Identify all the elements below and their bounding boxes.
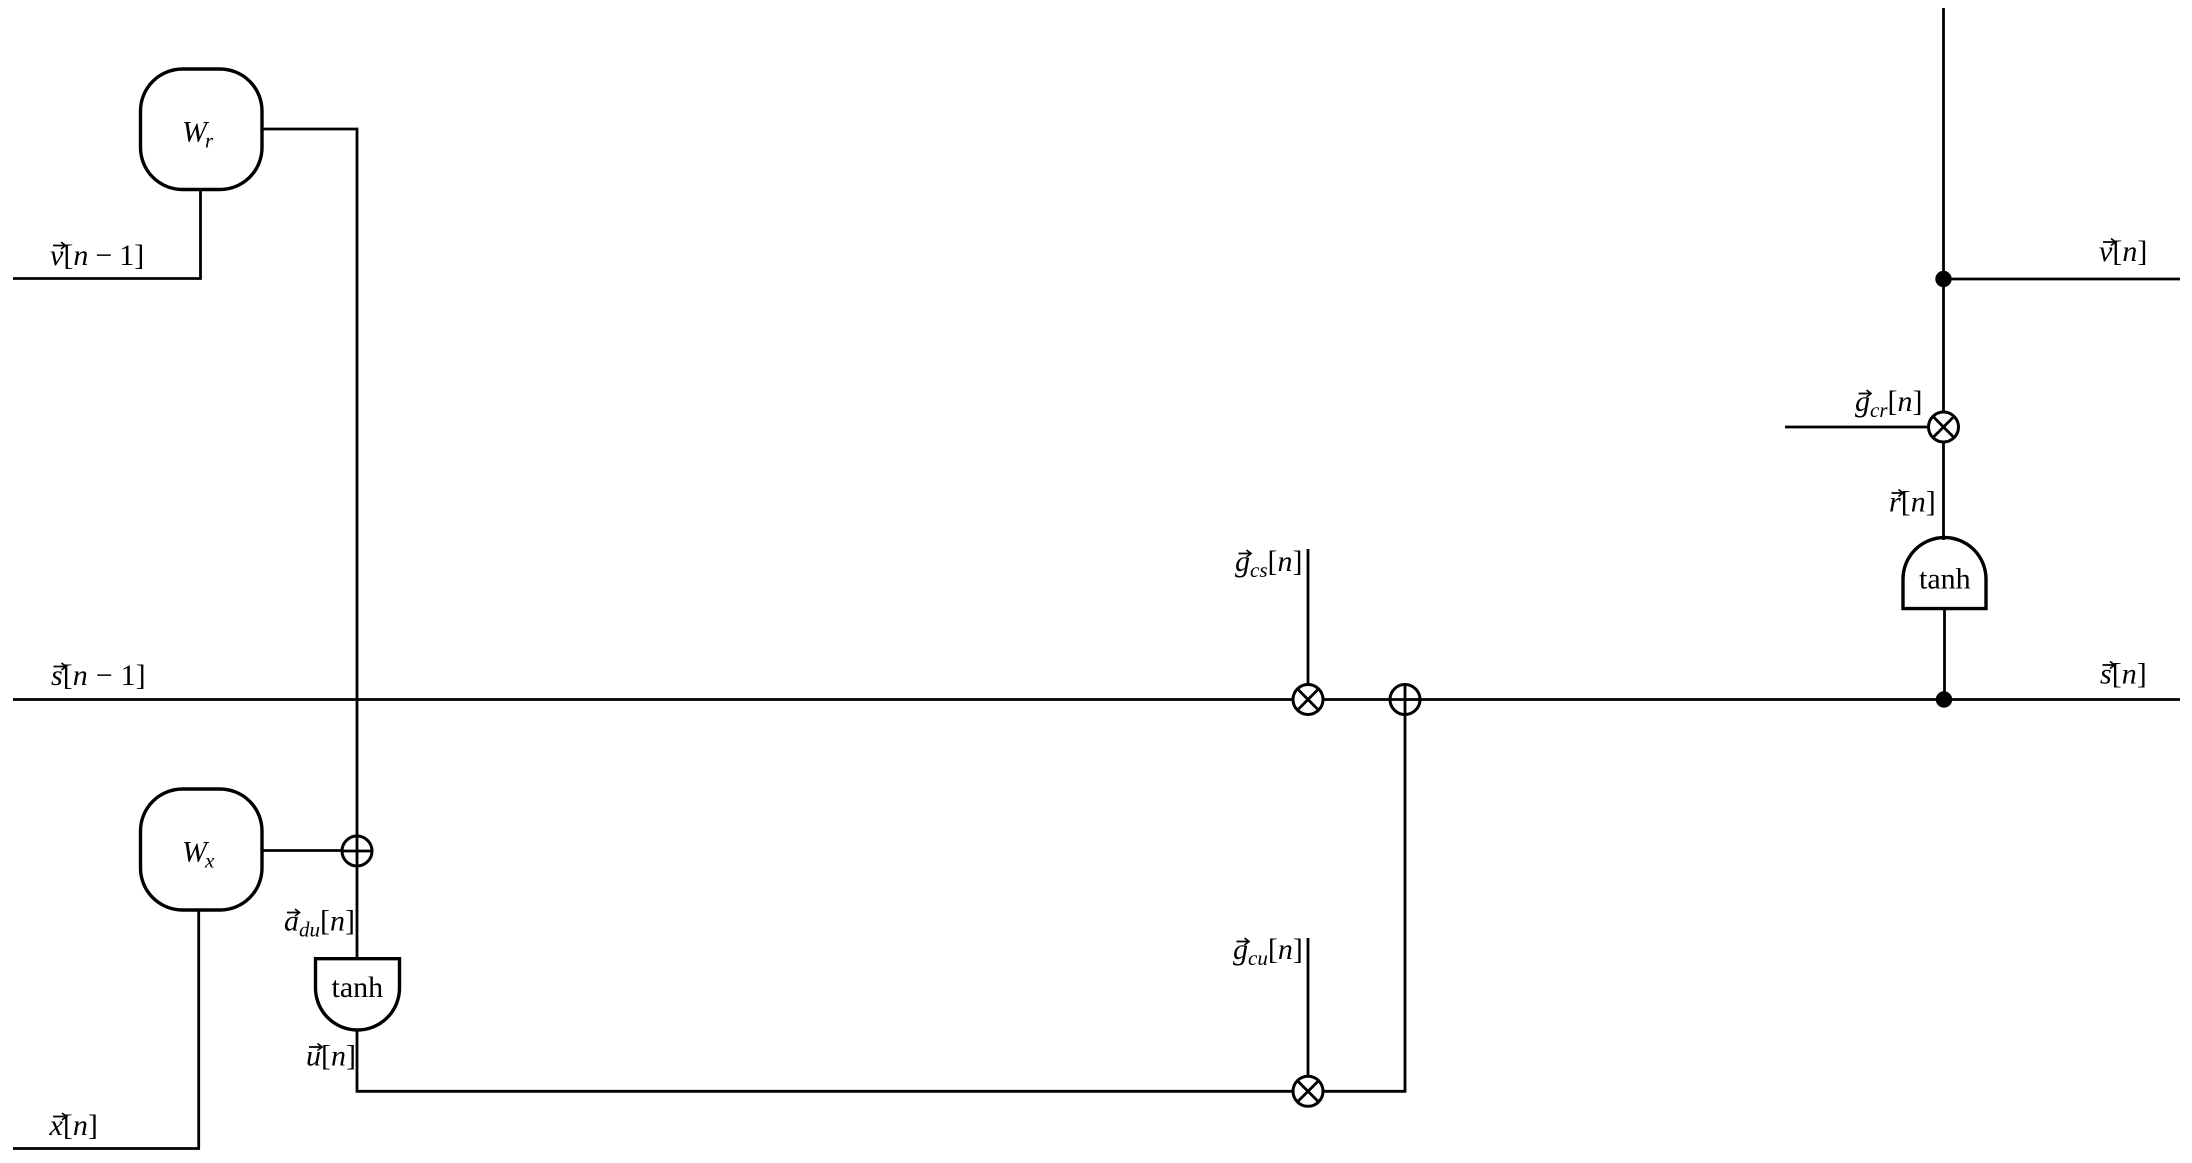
wire: v[n-1] input, bottom-left of W_r: [13, 190, 201, 279]
svg-text:gcr[n]: gcr[n]: [1855, 385, 1923, 422]
adder oplus (W_r + W_x): [342, 836, 372, 866]
wire: g_cr input from left: [1785, 426, 1929, 429]
vector arrow over g: [1237, 938, 1250, 945]
wire: from otimes g_cu right then up to oplus on s line: [1323, 715, 1405, 1091]
node W_x : weight matrix box: [141, 789, 263, 910]
vector arrow over v[n]: [2103, 239, 2116, 246]
node v[n] junction dot: [1935, 271, 1951, 287]
node W_r : weight matrix box: [141, 69, 263, 190]
wire: x[n] input to W_x bottom: [13, 910, 199, 1149]
wire: v-feedback vertical line from top edge: [1942, 8, 1945, 412]
node tanh-2 (round top, flat bottom): [1903, 538, 1986, 609]
vector arrow over a: [287, 909, 300, 916]
vector arrow over g_cs: [1239, 550, 1252, 557]
wire: g_cu input from top: [1307, 938, 1310, 1076]
multiplier otimes g_cr: [1929, 412, 1959, 442]
node tanh-1 (flat top, round bottom): [316, 959, 400, 1030]
svg-text:gcu[n]: gcu[n]: [1233, 933, 1303, 970]
wire: tanh-2 down to s line: [1943, 609, 1946, 700]
svg-text:gcs[n]: gcs[n]: [1235, 545, 1303, 582]
svg-text:tanh: tanh: [1919, 563, 1971, 596]
vector arrow over x: [53, 1113, 67, 1120]
adder oplus on s line: [1390, 685, 1420, 715]
svg-text:v[n]: v[n]: [2099, 235, 2147, 268]
svg-text:r[n]: r[n]: [1889, 486, 1936, 519]
wire: s line between otimes and oplus: [1323, 698, 1390, 701]
vector arrow over s right: [2103, 662, 2115, 669]
wire: s[n-1] main horizontal line, left of otimes g_cs: [13, 698, 1293, 701]
svg-text:s[n−1]: s[n−1]: [51, 659, 146, 692]
multiplier otimes g_cu: [1293, 1076, 1323, 1106]
wire: W_r output going right then down through oplus to tanh: [262, 129, 357, 836]
wire: W_x output to oplus: [262, 849, 342, 852]
wire: s line right of oplus to right edge: [1420, 698, 2180, 701]
vector arrow over r: [1892, 490, 1904, 497]
vector arrow over u: [309, 1044, 322, 1051]
vector arrow over v: [53, 242, 66, 249]
wire: u[n] path from tanh-1 down and right to otimes g_cu: [357, 1030, 1293, 1091]
wire: g_cs input from top: [1307, 549, 1310, 685]
wire: otimes g_cr down to tanh-2: [1942, 442, 1945, 540]
svg-text:tanh: tanh: [332, 971, 384, 1004]
svg-text:adu[n]: adu[n]: [284, 905, 355, 942]
multiplier otimes g_cs on s line: [1293, 685, 1323, 715]
vector arrow over g_cr: [1859, 390, 1872, 397]
vector arrow over s: [54, 663, 67, 670]
svg-text:s[n]: s[n]: [2100, 658, 2147, 691]
svg-text:x[n]: x[n]: [49, 1109, 98, 1142]
node s[n] junction dot: [1936, 691, 1952, 707]
wire: v[n] output to right: [1944, 278, 2181, 281]
svg-text:u[n]: u[n]: [306, 1040, 356, 1073]
wire: oplus down into tanh-1: [356, 866, 359, 959]
